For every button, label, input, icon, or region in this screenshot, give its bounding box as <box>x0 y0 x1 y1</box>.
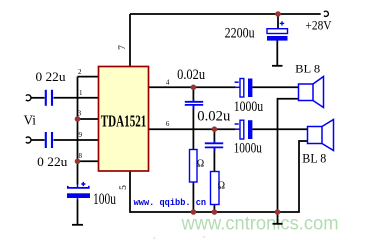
svg-text:7: 7 <box>118 45 128 50</box>
svg-text:www.cntronics.com: www.cntronics.com <box>181 213 339 235</box>
svg-text:1000u: 1000u <box>234 140 262 156</box>
svg-text:5: 5 <box>119 185 129 190</box>
svg-text:6: 6 <box>166 120 170 128</box>
svg-text:0 22u: 0 22u <box>36 69 67 84</box>
svg-text:2200u: 2200u <box>225 26 255 42</box>
svg-text:www. qqibb. cn: www. qqibb. cn <box>134 198 207 208</box>
svg-text:0.02u: 0.02u <box>177 67 205 83</box>
svg-text:0.02u: 0.02u <box>197 108 230 124</box>
svg-text:8: 8 <box>79 152 83 160</box>
svg-text:Ω: Ω <box>197 158 204 169</box>
svg-text:Vi: Vi <box>24 114 37 129</box>
svg-text:TDA1521: TDA1521 <box>101 111 147 130</box>
svg-text:BL 8: BL 8 <box>295 61 320 75</box>
svg-text:0 22u: 0 22u <box>37 154 68 169</box>
svg-text:BL 8: BL 8 <box>302 151 326 166</box>
svg-text:2: 2 <box>78 68 82 76</box>
svg-text:www.cntronics.com: www.cntronics.com <box>49 233 300 239</box>
svg-text:4: 4 <box>166 79 170 87</box>
svg-text:9: 9 <box>79 131 83 139</box>
svg-text:1000u: 1000u <box>234 99 263 115</box>
svg-text:Ω: Ω <box>218 180 225 191</box>
svg-text:100u: 100u <box>93 191 116 208</box>
svg-text:1: 1 <box>79 89 83 97</box>
svg-text:3: 3 <box>78 109 82 117</box>
svg-text:+28V: +28V <box>305 18 332 33</box>
